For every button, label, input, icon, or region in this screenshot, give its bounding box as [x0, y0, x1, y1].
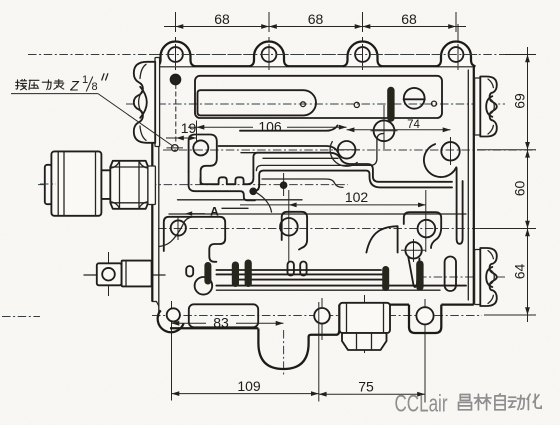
ext line right mid1 [477, 149, 536, 151]
pad mid outline [282, 212, 307, 250]
slot small hole [301, 102, 306, 107]
nut chamfer bottom [110, 202, 148, 209]
inner slot [198, 90, 317, 115]
screw head circle [404, 88, 425, 109]
drain nut facet left [356, 333, 358, 350]
top ear tab 2 [250, 42, 289, 67]
right star knob body [480, 77, 497, 137]
nut facet left [119, 161, 121, 209]
watermark hua [527, 394, 541, 409]
circle U-mid [374, 120, 395, 141]
nut facet right [138, 161, 140, 209]
right knob lens curve b [490, 99, 494, 114]
bottom tab around mid ear [309, 305, 340, 337]
bottom-left ear boss [158, 310, 184, 332]
vertical centerline bump [283, 173, 285, 196]
svg-text:106: 106 [258, 119, 282, 135]
channel step line 130 [240, 126, 338, 131]
centerline top ear row (over ears) [150, 54, 480, 56]
dark slot top (filled) [387, 87, 394, 122]
wedge circle [405, 242, 421, 258]
channel step line 146 [219, 146, 338, 152]
svg-text:109: 109 [237, 378, 261, 394]
ear4 vertical tick over [457, 44, 459, 66]
dim 109 line [172, 393, 319, 395]
small port dot right [432, 101, 437, 106]
junction dot [281, 182, 287, 188]
top ear hole 4 [449, 47, 464, 62]
channel B lower line2 [216, 289, 440, 291]
gauge plug dot (filled) [171, 75, 181, 85]
vertical centerline ear2 [268, 37, 270, 70]
dark slot mid1 [232, 262, 239, 288]
right knob lens curve b [490, 270, 494, 284]
watermark lin [474, 394, 491, 410]
pad left lower circle [195, 277, 213, 295]
right knob inner top [488, 251, 493, 259]
drain hex nut [342, 333, 387, 350]
nut washer [148, 166, 156, 205]
circle mid-left (346) [338, 141, 356, 159]
vertical centerline bottom ear mid [321, 298, 323, 340]
handwheel centerline [40, 183, 56, 185]
drain flange left wall [346, 303, 348, 333]
S-curve connector [253, 191, 271, 212]
handwheel stem [101, 170, 110, 199]
svg-text:8: 8 [92, 81, 98, 93]
gauge port tick [167, 147, 184, 149]
ear2 vertical tick over [268, 44, 270, 66]
ear3 vertical tick over [362, 44, 364, 66]
channel A bottom border [189, 184, 255, 200]
centerline lower knob axis [418, 276, 505, 278]
pilot pad left stub [188, 172, 190, 185]
channel line y158.3 [263, 157, 338, 159]
dark slot above lower circle [204, 262, 211, 285]
channel B upper line1 [216, 269, 381, 271]
left inner curve upper [160, 217, 194, 247]
svg-text:A: A [210, 205, 219, 219]
top ear hole 3 [355, 47, 370, 62]
right knob inner bottom [488, 295, 493, 303]
right knob washer [475, 78, 481, 135]
pad mid hole [280, 218, 298, 236]
svg-text:CCLair: CCLair [395, 391, 448, 418]
body bottom edge left section [170, 327, 258, 329]
channel A lower line [253, 171, 452, 192]
label: connect pressure gauge [16, 79, 27, 89]
shaft collar line [125, 261, 127, 287]
body left edge outer [151, 66, 153, 301]
circle U-mid hline [371, 130, 398, 132]
vertical centerline ear1 [175, 37, 177, 70]
top ear hole 1 [168, 47, 183, 62]
vertical centerline circle mid-right [450, 137, 452, 165]
dim 106 line [188, 126, 253, 128]
body outline top edge [152, 65, 474, 67]
vertical centerline bottom ear right [424, 299, 426, 338]
svg-text:75: 75 [358, 379, 374, 395]
svg-text:74: 74 [407, 119, 420, 131]
ext line right bottom [484, 314, 536, 316]
long thin line y214 [169, 213, 466, 215]
shaft end hole [102, 268, 115, 281]
vertical centerline ear4 [457, 24, 459, 70]
nub outline left [186, 266, 193, 277]
svg-text:68: 68 [401, 11, 417, 27]
bottom-right ear hole [416, 307, 433, 324]
bottom-mid ear hole [314, 308, 330, 324]
top ear hole 2 [262, 47, 277, 62]
vertical centerline pad left [177, 217, 179, 240]
drain flange right wall [383, 303, 385, 333]
ext line right mid2 [480, 228, 536, 230]
ext line bottom mid [318, 302, 320, 402]
channel A corner dot [250, 188, 256, 194]
vertical centerline pad right [425, 190, 427, 252]
vertical centerline circle U-mid [383, 105, 385, 149]
left knob lens curve b [139, 90, 143, 114]
nut mid chamfer lines [110, 166, 148, 168]
body bottom edge right section B [441, 303, 474, 305]
pad left hole [171, 220, 186, 235]
nut chamfer top [110, 161, 148, 168]
svg-text:69: 69 [512, 93, 528, 109]
top ear tab 1 [156, 42, 195, 67]
wedge shape [408, 257, 419, 288]
left knob inner top [140, 64, 146, 78]
screw slot [404, 98, 425, 100]
ext line bottom right [424, 338, 426, 403]
centerline mid circles row [163, 149, 536, 151]
right knob washer [475, 250, 481, 305]
vertical centerline drain fitting [364, 295, 366, 353]
ext line bottom left [171, 331, 173, 401]
left knob mounting plate [155, 58, 160, 147]
right knob inner bottom [488, 125, 493, 134]
ear1 vertical tick over [175, 44, 177, 66]
vertical centerline ear3 [362, 37, 364, 70]
left knob inner bottom [140, 126, 146, 140]
body right edge outer [473, 66, 475, 304]
drain nut facet right [371, 333, 373, 350]
gauge port hole [172, 145, 179, 152]
dim 102 line [240, 204, 426, 206]
channel A top border [201, 153, 452, 185]
dark slot right of channel B [382, 266, 389, 291]
pad mid foot right [300, 262, 306, 276]
svg-text:102: 102 [345, 189, 369, 205]
dim top 68s line [164, 26, 466, 28]
channel stub y152.7 [241, 152, 258, 154]
circle mid-right (450) [441, 142, 459, 160]
svg-text:68: 68 [214, 11, 230, 27]
svg-text:64: 64 [512, 264, 528, 280]
pad mid foot left [288, 262, 294, 276]
right knob lens curve a [486, 267, 492, 287]
watermark chang [459, 395, 472, 410]
lock hex nut [110, 161, 148, 209]
centerline pad row [158, 228, 536, 230]
vertical centerline wedge circle [413, 239, 415, 262]
circle mid-left hline tick [334, 149, 360, 151]
dark slot mid2 [245, 260, 252, 288]
body left edge jog [152, 302, 159, 307]
body bottom edge right section A [339, 303, 409, 305]
watermark zi [495, 394, 505, 410]
rounded slot right [445, 257, 456, 292]
handwheel face line2 [63, 151, 65, 215]
vertical centerline pad mid [288, 190, 290, 262]
wedge circle hline [401, 249, 426, 251]
handwheel end cap [45, 165, 52, 204]
dim 19 line [166, 137, 197, 139]
centerline top ear row [28, 54, 536, 56]
handwheel face line [57, 151, 59, 215]
vertical centerline bottom ear left [171, 301, 173, 345]
handwheel body [51, 151, 101, 215]
svg-text:19: 19 [181, 120, 197, 136]
centerline knob axis [38, 184, 348, 186]
leader line to port [98, 94, 174, 147]
bottom-left ear hole [167, 308, 180, 321]
bottom window rect [189, 304, 258, 327]
channel B lower line1 [216, 285, 466, 287]
pilot pad hole [193, 140, 208, 155]
pad left staircase outline [164, 217, 225, 262]
svg-text:68: 68 [308, 11, 324, 27]
tab around 450 [424, 144, 456, 177]
channel B upper line3 [237, 279, 382, 281]
vertical centerline shaft block [108, 252, 110, 296]
svg-text:Z: Z [69, 78, 79, 94]
bottom bump half-round [258, 329, 308, 370]
top ear tab 4 [437, 42, 476, 67]
dim 74 line [347, 129, 451, 131]
right vertical channel [457, 168, 463, 244]
stub line y208 [222, 207, 248, 209]
leader underline [11, 93, 98, 95]
small port dot mid [354, 102, 359, 107]
bottom tab around right ear [409, 305, 441, 333]
dim right vertical line [527, 47, 529, 322]
dim 83 line [172, 322, 207, 324]
dim 75 line [319, 393, 425, 395]
ext line x196 [196, 121, 198, 143]
curve below pad right [366, 226, 397, 252]
svg-text:1: 1 [82, 74, 88, 86]
centerline upper horizontal axis [126, 103, 505, 105]
left knob lens curve a [140, 87, 147, 118]
shaft body [122, 261, 152, 287]
watermark dong [508, 395, 524, 409]
dark slot in wedge [416, 261, 423, 291]
section arrow A [187, 213, 206, 215]
channel line y179 [262, 179, 343, 187]
pad right outline [404, 212, 441, 248]
boss arc around 346 [330, 142, 357, 167]
top ear tab 3 [343, 42, 382, 67]
shaft end block [97, 263, 122, 285]
handwheel face line3 [95, 151, 97, 215]
channel line y166 left bend [256, 134, 383, 171]
right star knob body [480, 248, 497, 306]
pilot pad outline [189, 135, 217, 185]
centerline bottom ear row [152, 315, 482, 317]
centerline bottom ear row left stub [2, 316, 40, 318]
channel lower link y200 [178, 199, 303, 201]
right knob inner top [488, 79, 493, 88]
body right edge inner [467, 70, 469, 300]
ext line right top [505, 54, 536, 56]
channel B upper line2 [216, 273, 382, 275]
left star knob body [134, 62, 155, 143]
centerline shaft axis [84, 274, 165, 276]
svg-text:60: 60 [512, 181, 528, 197]
drain flange [340, 303, 391, 333]
pad right hole [418, 220, 436, 238]
svg-text:83: 83 [213, 315, 229, 331]
hidden gauge-port line [175, 84, 177, 143]
inner top rectangle [195, 76, 442, 118]
body left edge inner [158, 68, 160, 316]
right knob lens curve a [486, 96, 492, 117]
